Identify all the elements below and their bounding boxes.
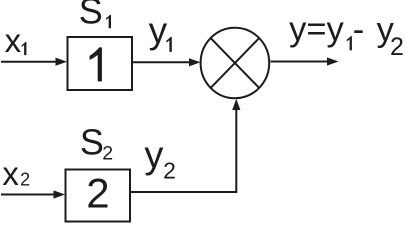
svg-text:x: x <box>2 155 19 192</box>
svg-text:y: y <box>144 135 163 177</box>
node label x2 <box>2 155 30 192</box>
label S1 <box>79 0 111 31</box>
block 1 (system S1) <box>68 37 133 90</box>
svg-text:2: 2 <box>102 142 113 164</box>
svg-text:-: - <box>353 11 365 49</box>
wire y1 from block 1 to summing junction <box>132 58 201 66</box>
svg-text:y=y: y=y <box>289 10 344 48</box>
svg-text:S: S <box>80 122 104 163</box>
node label y1 <box>149 10 172 52</box>
node label y2 <box>144 135 175 184</box>
svg-text:2: 2 <box>390 33 404 61</box>
wire x1 input arrow <box>1 58 67 66</box>
output label y=y1-y2 <box>289 10 404 61</box>
label S2 <box>80 122 113 165</box>
wire output arrow <box>271 57 339 65</box>
svg-text:y: y <box>149 10 168 51</box>
wire x2 input arrow <box>1 190 65 198</box>
svg-text:x: x <box>5 22 22 59</box>
node label x1 <box>5 22 27 59</box>
summing junction (circle with X) <box>201 28 270 98</box>
svg-text:2: 2 <box>163 158 176 184</box>
svg-text:S: S <box>79 0 103 31</box>
svg-text:2: 2 <box>86 169 109 216</box>
wire y2 from block 2 to summing junction <box>130 99 240 192</box>
block 2 (system S2) <box>66 169 131 221</box>
svg-text:2: 2 <box>20 169 30 189</box>
